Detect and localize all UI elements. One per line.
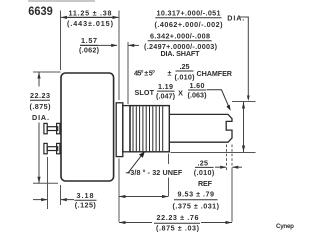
dimension .25 ref arrows [215,166,226,168]
svg-text:±: ± [168,69,172,78]
mounting washer [116,103,123,157]
svg-text:X: X [178,89,183,98]
leader 3/8-32 UNEF [126,172,130,174]
body of potentiometer [61,73,114,181]
dimension 22.23 body dia: extension lines [33,71,61,73]
svg-text:(.047): (.047) [156,92,176,101]
extension line washer face top [118,11,120,101]
fraction bar 9.53 [174,199,218,201]
svg-text:(.063): (.063) [188,90,208,99]
svg-text:1.19: 1.19 [158,82,173,91]
extension line body left [60,11,62,71]
svg-text:3.18: 3.18 [77,191,94,200]
svg-text:CHAMFER: CHAMFER [197,69,233,78]
svg-text:(.443±.015): (.443±.015) [67,19,114,28]
fraction bars upper blocks [68,16,113,18]
svg-text:10.317+.000/-.051: 10.317+.000/-.051 [157,9,221,18]
svg-text:3/8 ° - 32 UNEF: 3/8 ° - 32 UNEF [130,168,183,177]
svg-text:1.60: 1.60 [190,81,205,90]
dimension 3.18: arrows [33,199,47,201]
extension line thread start [127,42,129,104]
svg-text:.25: .25 [197,159,208,168]
thread lines [133,106,163,151]
svg-text:REF: REF [198,179,213,188]
svg-text:Cynep: Cynep [276,223,294,230]
svg-text:6639: 6639 [28,4,53,18]
svg-text:9.53 ± .79: 9.53 ± .79 [178,190,215,199]
svg-text:22.23: 22.23 [30,91,50,100]
svg-text:(.875 ± .03): (.875 ± .03) [156,224,200,233]
scan artifact top edge [28,0,95,2]
dimension 1.57 arrows [80,44,117,46]
svg-text:DIA.: DIA. [227,14,244,23]
svg-text:45° ± 5°: 45° ± 5° [134,69,155,78]
extension line bushing face [168,154,170,165]
dimension 22.23 overall [119,222,152,224]
dimension 10.317 bushing dia [232,101,256,103]
dimension 11.25 line [61,16,120,18]
threaded bushing [130,106,169,152]
shaft with slotted end [169,114,232,142]
svg-text:(.875): (.875) [30,102,52,111]
svg-text:DIA.: DIA. [32,113,49,122]
svg-text:DIA. SHAFT: DIA. SHAFT [161,49,201,58]
svg-text:11.25 ± .38: 11.25 ± .38 [69,9,112,18]
dimension 3.18: extension lines [47,157,49,209]
terminal 1 [44,123,60,133]
svg-text:(.4062+.000/-.002): (.4062+.000/-.002) [155,20,224,29]
bushing collar [123,106,130,152]
fraction bar 3.18 [75,199,97,201]
svg-text:(.375 ± .031): (.375 ± .031) [173,201,220,210]
svg-text:6.342+.000/-.008: 6.342+.000/-.008 [150,32,210,41]
dimension 22.23 body dia: dim line [38,72,40,87]
leader DIA top right [240,17,248,99]
extension line washer face bottom [118,159,120,222]
dimension 9.53 bushing length [119,196,169,198]
svg-text:(.010): (.010) [175,72,196,81]
dimension .25 ref slot depth: dashed extensions [226,145,228,171]
svg-text:.25: .25 [180,62,190,71]
svg-text:22.23 ± .76: 22.23 ± .76 [157,213,199,222]
fraction bar 22.23 overall [154,222,200,224]
svg-text:SLOT: SLOT [135,88,155,97]
svg-text:(.010): (.010) [194,168,215,177]
extension line shaft end face (lower solid part) [231,170,233,222]
svg-text:1.57: 1.57 [81,36,97,45]
svg-text:(.062): (.062) [79,46,100,55]
leader slot label [207,90,230,109]
terminal 2 [44,143,60,153]
svg-text:(.125): (.125) [75,201,97,210]
